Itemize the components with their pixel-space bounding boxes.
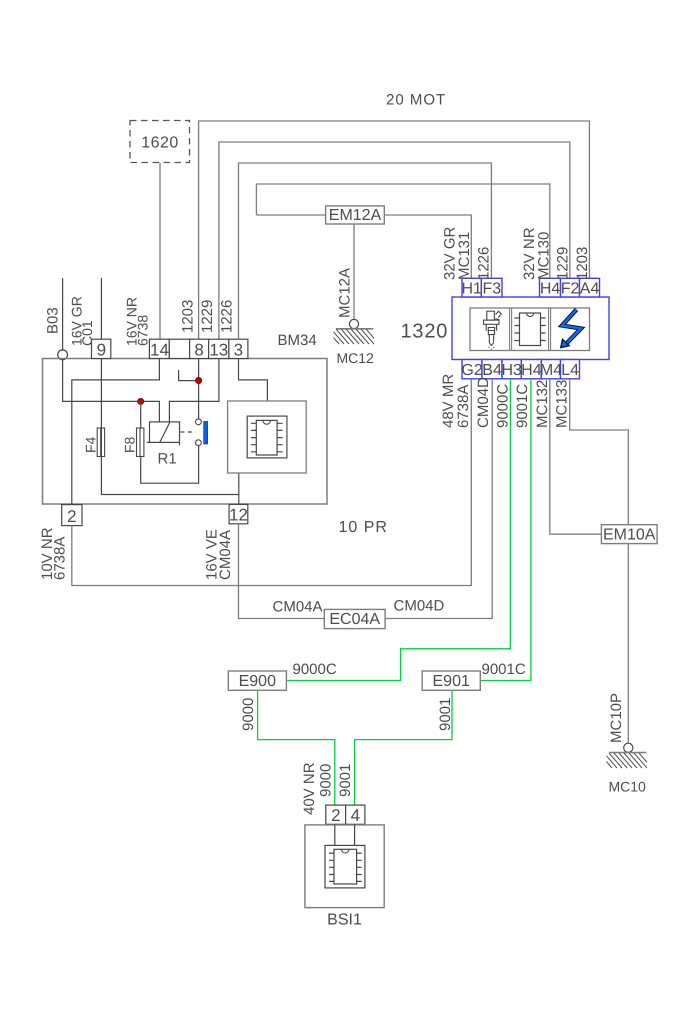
svg-text:MC10: MC10 [609, 779, 647, 795]
svg-text:1229: 1229 [555, 247, 572, 280]
svg-text:1226: 1226 [219, 300, 236, 333]
ground MC10 [599, 743, 652, 768]
IC chip symbol in BM34 [247, 416, 287, 458]
wire pin 14 to pin 2 [72, 359, 160, 505]
svg-text:CM04D: CM04D [475, 377, 492, 428]
svg-text:BSI1: BSI1 [327, 912, 362, 929]
svg-text:MC10P: MC10P [608, 693, 625, 743]
svg-text:6738A: 6738A [52, 537, 69, 580]
svg-text:2: 2 [331, 806, 340, 825]
splice EM10A [601, 525, 657, 544]
pin box 2 [62, 505, 82, 526]
svg-text:6738: 6738 [135, 315, 151, 346]
splice EC04A [324, 609, 385, 628]
pin box H3 [501, 360, 522, 380]
pin box 3 [229, 339, 248, 359]
wire pin 12 to EC04A (CM04A) [239, 524, 325, 619]
svg-text:1620: 1620 [141, 135, 179, 152]
svg-text:9000C: 9000C [293, 661, 337, 678]
pin box 14 [149, 339, 169, 359]
svg-text:10 PR: 10 PR [339, 519, 388, 536]
pin box 9 [92, 339, 111, 359]
pin box F2 [561, 278, 580, 297]
svg-text:12: 12 [229, 506, 248, 525]
relay R1 coil [147, 422, 180, 445]
svg-text:9001C: 9001C [514, 384, 531, 428]
svg-text:EC04A: EC04A [329, 611, 380, 628]
wire E901 to BSI pin 4 (9001 green) [355, 690, 452, 805]
pin box G2 [461, 360, 482, 380]
pin box M4 [540, 360, 562, 380]
BSI pin box 4 [346, 805, 365, 825]
svg-text:9001: 9001 [337, 764, 354, 797]
wire M4 to EM10A (MC132) [550, 379, 602, 534]
relay switch blue bar [204, 421, 208, 444]
wire L4 to ground MC10 (MC133) [570, 379, 629, 743]
wire pin 9 to fuse F4 and to pin 12 node [101, 359, 238, 505]
pin box L4 [561, 360, 580, 380]
svg-text:A4: A4 [580, 280, 600, 297]
svg-text:H1: H1 [461, 280, 482, 297]
svg-text:MC12A: MC12A [337, 268, 354, 318]
svg-text:6738A: 6738A [455, 385, 472, 428]
wire pin 3 to IC container [239, 359, 268, 402]
wire pin 2 to G2 (6738A) [72, 379, 472, 586]
pin box B4 [482, 360, 502, 380]
svg-text:20 MOT: 20 MOT [386, 92, 446, 109]
svg-text:CM04A: CM04A [273, 599, 323, 616]
ground MC12 [326, 319, 379, 344]
svg-text:9001C: 9001C [482, 661, 526, 678]
svg-text:L4: L4 [561, 362, 579, 379]
fuse F4 [97, 428, 104, 457]
pin box H4 bottom [521, 360, 542, 380]
wire pin 13 to relay coil right [169, 359, 219, 422]
svg-text:MC133: MC133 [554, 380, 571, 428]
wire E900 to BSI pin 2 (9000 green) [258, 690, 335, 805]
relay dashed link [181, 431, 196, 433]
svg-text:CM04D: CM04D [394, 598, 445, 615]
svg-text:1203: 1203 [180, 300, 197, 333]
svg-text:9000: 9000 [240, 698, 257, 731]
wire B03 to relay coil left [63, 360, 160, 422]
wire fuse F8 to switch bottom [141, 446, 199, 484]
wire MC130 (EM12A to H4) [256, 184, 549, 278]
junction (pin 8 / switch) [196, 378, 202, 384]
svg-text:MC132: MC132 [534, 380, 551, 428]
component 1620 (dashed box) [130, 121, 190, 163]
IC chip symbol in BSI1 [325, 845, 365, 888]
wire EC04A to B4 (CM04D) [385, 379, 492, 619]
svg-text:2: 2 [67, 507, 76, 526]
svg-text:3: 3 [234, 341, 243, 360]
svg-text:F2: F2 [561, 280, 580, 297]
BM34 outer box [43, 359, 328, 505]
wire MC12A (EM12A to ground MC12) [353, 224, 355, 319]
svg-text:R1: R1 [158, 451, 177, 468]
svg-text:40V NR: 40V NR [301, 762, 318, 815]
wire 1203 (pin 8 to A4) [199, 121, 590, 339]
svg-text:C01: C01 [79, 320, 95, 346]
svg-text:1229: 1229 [199, 300, 216, 333]
icon IC chip [514, 313, 545, 346]
pin box F3 [481, 278, 502, 297]
component 1320 main box [452, 297, 609, 360]
svg-text:H4: H4 [540, 280, 561, 297]
wire MC131 (EM12A to H1) [384, 215, 471, 278]
svg-text:E900: E900 [239, 673, 276, 690]
svg-text:MC131: MC131 [456, 232, 473, 280]
svg-text:EM12A: EM12A [329, 207, 382, 224]
splice EM12A [326, 206, 385, 224]
svg-text:14: 14 [150, 341, 169, 360]
wire pin 8 to switch contact [198, 359, 200, 420]
wire H3 to E900 (9000C green) [286, 379, 510, 681]
svg-text:4: 4 [351, 806, 360, 825]
pin box H1 [461, 278, 482, 297]
wire BSI pin 2 to IC [334, 824, 336, 845]
svg-text:H3: H3 [501, 362, 522, 379]
svg-text:BM34: BM34 [278, 332, 317, 349]
wire B03 above BM34 [62, 278, 64, 350]
svg-text:B4: B4 [482, 362, 502, 379]
svg-text:F4: F4 [83, 436, 99, 453]
wire junction to fuse F8 [140, 401, 142, 428]
svg-text:G2: G2 [461, 362, 482, 379]
svg-text:CM04A: CM04A [217, 530, 234, 580]
BSI1 outer box [305, 825, 384, 908]
svg-text:H4: H4 [521, 362, 542, 379]
wire 1226 (pin 3 to F3) [239, 163, 492, 339]
splice E900 [228, 671, 286, 690]
pin box H4 top [540, 278, 561, 297]
svg-text:9: 9 [97, 341, 106, 360]
wire C01 above pin 9 [100, 278, 102, 339]
svg-text:13: 13 [209, 341, 228, 360]
node B03 (circle) [58, 350, 68, 360]
wire 1229 (pin 13 to F2) [219, 142, 570, 339]
splice E901 [422, 671, 480, 690]
svg-text:1203: 1203 [574, 247, 591, 280]
icon lightning bolt [561, 310, 581, 348]
svg-text:F8: F8 [122, 436, 138, 453]
IC container box in BM34 [228, 401, 307, 473]
pin box 13 [209, 339, 229, 359]
svg-text:B03: B03 [45, 307, 62, 334]
svg-text:9000: 9000 [318, 764, 335, 797]
svg-text:M4: M4 [540, 362, 562, 379]
svg-text:MC130: MC130 [536, 232, 553, 280]
wire H4 to E901 (9001C green) [480, 379, 531, 681]
wire EM12A left stub [256, 214, 325, 216]
pin box empty [169, 339, 189, 358]
pin box 8 [190, 339, 209, 359]
fuse F8 [137, 428, 144, 457]
wire 1620 to pin 14 [159, 163, 161, 340]
1320 inner container [470, 308, 590, 351]
relay switch contacts [196, 419, 202, 446]
pin box A4 [580, 278, 600, 297]
svg-text:EM10A: EM10A [603, 526, 656, 543]
icon injector [484, 311, 502, 349]
wire BSI pin 4 to IC [354, 824, 356, 845]
BSI pin box 2 [326, 805, 346, 825]
svg-text:F3: F3 [482, 280, 501, 297]
svg-text:9000C: 9000C [495, 384, 512, 428]
svg-text:MC12: MC12 [337, 350, 375, 366]
svg-text:8: 8 [194, 341, 203, 360]
svg-text:9001: 9001 [437, 698, 454, 731]
pin box 12 [229, 504, 248, 524]
svg-text:E901: E901 [433, 673, 470, 690]
svg-text:1226: 1226 [476, 247, 493, 280]
junction (B03 line / F8) [138, 398, 144, 404]
svg-text:1320: 1320 [401, 321, 449, 343]
wire stub near relay [179, 370, 199, 381]
